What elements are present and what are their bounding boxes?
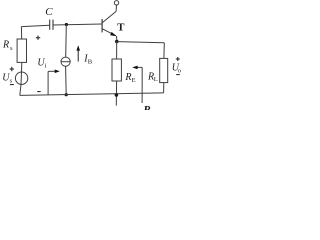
resistor RE body <box>112 59 121 81</box>
svg-text:R: R <box>2 40 9 51</box>
emitter lead down to node <box>116 36 118 42</box>
wire through source Us <box>20 72 23 84</box>
wire: source Us to bottom rail <box>20 84 21 95</box>
svg-text:R: R <box>124 72 131 83</box>
plus sign of Us <box>10 67 14 71</box>
wire: emitter node to RL branch <box>117 42 165 43</box>
arrow annotation rising from rail pointing right at IB branch <box>47 71 49 95</box>
voltage source Us circle <box>15 72 27 84</box>
wire: capacitor to transistor base <box>53 24 102 25</box>
collector open terminal circle <box>114 1 118 5</box>
resistor Rs vertical lead from top wire <box>20 27 22 39</box>
wire: junction down to current source <box>65 25 68 58</box>
resistor RL lead from emitter wire <box>163 43 165 59</box>
wire: top-left horizontal from Rs corner to capacitor <box>21 25 49 26</box>
arrow: IB current direction (up) <box>77 50 79 62</box>
collector lead up to terminal <box>115 5 117 11</box>
resistor RL body <box>160 58 168 82</box>
capacitor C1 right plate <box>52 20 54 30</box>
minus sign of Ui <box>37 91 41 93</box>
node: RE rail junction dot <box>115 93 119 97</box>
svg-text:o: o <box>178 67 181 74</box>
transistor T collector diagonal <box>102 11 116 22</box>
svg-text:C: C <box>45 6 53 18</box>
capacitor C1 left plate <box>49 20 51 30</box>
svg-text:B: B <box>88 59 93 66</box>
svg-text:E: E <box>132 77 136 84</box>
plus sign of Uo <box>176 57 180 61</box>
arrow annotation rising from rail pointing left at RE <box>141 67 143 103</box>
node: junction dot on bottom rail <box>65 93 68 96</box>
current source IB circle <box>61 57 70 66</box>
node: emitter junction dot <box>115 40 119 44</box>
wire: current source to bottom rail <box>65 66 68 94</box>
wire: Rs to source Us <box>21 62 23 72</box>
svg-text:T: T <box>117 22 125 34</box>
node: junction dot after capacitor <box>65 23 68 26</box>
svg-text:i: i <box>45 62 47 69</box>
transistor T emitter diagonal with arrow <box>102 29 116 36</box>
resistor Rs body <box>17 39 26 62</box>
resistor RE lead from emitter node <box>116 42 118 60</box>
wire: RE to rail and stub below rail <box>115 81 117 106</box>
svg-text:L: L <box>154 76 158 83</box>
wire: RL to rail corner <box>163 83 165 93</box>
minus sign of Uo <box>176 74 180 76</box>
plus sign of Ui <box>36 36 40 40</box>
minus sign of Us <box>10 84 14 86</box>
svg-text:R: R <box>142 104 150 110</box>
transistor T base bar <box>101 19 103 32</box>
bottom rail <box>20 93 164 96</box>
